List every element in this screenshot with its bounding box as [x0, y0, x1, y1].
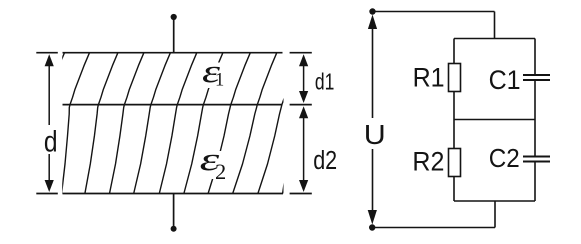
capacitor C2 top plate — [523, 156, 550, 158]
arrowhead of d pointing down — [45, 180, 54, 192]
arrowhead of d pointing up — [45, 54, 54, 66]
svg-text:C2: C2 — [489, 143, 520, 173]
label halo epsilon-2 — [198, 151, 224, 179]
wire: bottom terminal lead from bottom electrode — [173, 194, 175, 229]
dimension arrow d (total thickness), shaft with gap for label — [48, 63, 50, 184]
wire: left branch upper (to R1) — [453, 39, 455, 65]
wire: right branch upper (to C1) — [534, 39, 536, 75]
voltage arrow U shaft (with gap for label) — [372, 26, 374, 212]
wire: right branch from C1 to middle node — [534, 81, 536, 120]
label R1 — [413, 62, 445, 92]
dimension tick: right end of dielectric boundary — [290, 104, 312, 106]
wire: left branch from middle node to R2 — [453, 120, 455, 150]
arrowhead of d2 pointing up — [299, 106, 308, 118]
wire: left branch from R1 to middle node — [453, 92, 455, 120]
arrowhead of U pointing down — [368, 210, 377, 225]
wire: bottom return to U node — [372, 227, 495, 229]
arrowhead of U pointing up — [368, 15, 377, 30]
dimension arrow d2 (layer 2 thickness) shaft — [303, 113, 305, 184]
resistor R1 body — [449, 64, 461, 92]
capacitor C1 bottom plate — [523, 79, 550, 81]
svg-text:d2: d2 — [313, 147, 337, 175]
resistor R2 body — [449, 149, 461, 177]
wire: left branch from R2 to bottom rail — [453, 177, 455, 202]
bottom electrode plate line — [63, 193, 284, 195]
wire: entry drop to parallel group 1 — [494, 12, 496, 39]
label d — [44, 125, 58, 158]
dimension tick: right end of top electrode — [290, 52, 312, 54]
node: bottom terminal dot of layered capacitor — [171, 226, 177, 232]
arrowhead of d1 pointing down — [299, 91, 308, 103]
top electrode plate line — [63, 52, 283, 54]
dielectric boundary line between layer 1 and layer 2 — [63, 104, 283, 106]
dimension tick: left end of bottom electrode — [36, 193, 58, 195]
node: top terminal dot of equivalent circuit — [369, 8, 375, 14]
dimension tick: left end of top electrode — [36, 52, 58, 54]
wire: top terminal lead to top electrode — [173, 17, 175, 53]
wire: top from U node to circuit entry — [373, 11, 495, 13]
label U — [364, 119, 386, 150]
wire: middle node rail between the two RC groups — [454, 119, 535, 121]
label C2 — [489, 143, 520, 173]
wire: right branch from middle node to C2 — [534, 120, 536, 157]
label epsilon-2 (permittivity of layer 2) — [200, 142, 227, 184]
svg-text:1: 1 — [215, 71, 224, 91]
wire: bottom rail of parallel group 2 — [454, 200, 535, 202]
label C1 — [489, 65, 521, 95]
label epsilon-1 (permittivity of layer 1) — [202, 54, 224, 91]
capacitor C2 bottom plate — [523, 161, 550, 163]
wire: right branch from C2 to bottom rail — [534, 163, 536, 202]
node: bottom terminal dot of equivalent circuit — [369, 224, 375, 230]
label R2 — [412, 147, 444, 177]
hatching strokes across dielectric layers 1 and 2 — [45, 53, 301, 194]
svg-text:d1: d1 — [315, 68, 335, 94]
svg-text:2: 2 — [215, 159, 226, 184]
wire: top rail of parallel group 1 — [454, 38, 535, 40]
arrowhead of d1 pointing up — [299, 54, 308, 66]
label d2 — [313, 147, 337, 175]
svg-text:R2: R2 — [412, 147, 444, 177]
label halo epsilon-1 — [198, 63, 227, 89]
capacitor C1 top plate — [523, 74, 550, 76]
svg-text:C1: C1 — [489, 65, 521, 95]
wire: exit drop from bottom rail — [494, 201, 496, 228]
svg-text:R1: R1 — [413, 62, 445, 92]
arrowhead of d2 pointing down — [299, 180, 308, 192]
svg-text:U: U — [364, 119, 386, 150]
label d1 — [315, 68, 335, 94]
node: top terminal dot of layered capacitor — [171, 14, 177, 20]
dimension tick: right end of bottom electrode — [290, 193, 312, 195]
svg-text:d: d — [44, 125, 58, 158]
dimension arrow d1 (layer 1 thickness) shaft — [303, 62, 305, 96]
